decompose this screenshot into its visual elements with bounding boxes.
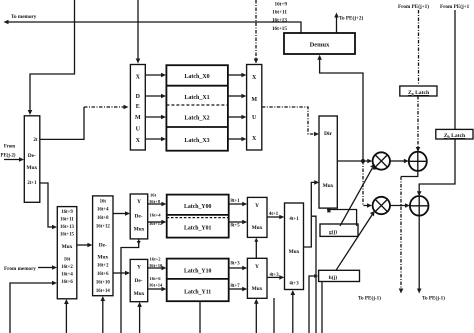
wire: adder A2 output to PE(j-1) (418, 216, 420, 290)
demux D: De-Mux column box (93, 196, 113, 296)
svg-text:Latch_X1: Latch_X1 (184, 95, 209, 101)
wire: control into h(j) from bottom-left (309, 276, 315, 333)
wire: Zb latch to adder A2 (419, 139, 455, 193)
wire: Mux column to De-Mux column (77, 244, 89, 246)
svg-text:16t+13: 16t+13 (60, 225, 75, 230)
wire: control stub into Y Mux 1 bottom (255, 242, 257, 259)
wire: Mux column bottom control (65, 303, 67, 333)
svg-text:X: X (252, 75, 257, 81)
node: junction dot at Dir mux bottom (327, 208, 331, 212)
wire: Y Mux 1 output 4t+1 (267, 216, 281, 218)
svg-text:16t+6: 16t+6 (61, 280, 73, 285)
svg-text:16t+2: 16t+2 (61, 265, 73, 270)
svg-text:2t+1: 2t+1 (27, 181, 37, 186)
svg-text:16t+15: 16t+15 (272, 26, 287, 32)
mux Dir: Dir/Mux tall box (319, 116, 337, 208)
svg-text:16t+10: 16t+10 (149, 263, 163, 268)
mux 4t: middle Mux box 4t+1/4t+3 (285, 203, 304, 290)
wires: Y De-Mux 1 to latches (148, 203, 163, 205)
svg-text:16t: 16t (64, 258, 71, 263)
svg-text:Mux: Mux (252, 225, 263, 231)
latch bank Y0: Latch_Y00/Y01 (167, 195, 229, 238)
wire: control jog joining riser (311, 216, 316, 333)
wire: De-Mux column to Y De-Mux 1 (113, 213, 127, 215)
wire: Demux to PE(j+2) (336, 16, 338, 33)
svg-text:Mux: Mux (62, 244, 73, 250)
wire: from PE(j-2) into De-Mux (4, 159, 21, 161)
wire: Za latch to adder A1 (dash-dot) (417, 96, 419, 148)
svg-text:De-: De- (99, 243, 107, 249)
svg-text:16t+6: 16t+6 (150, 276, 162, 281)
svg-text:16t: 16t (150, 193, 157, 198)
wire: control into middle Mux bottom (292, 293, 294, 333)
wire: vertical feed to X DEMUX (137, 0, 139, 60)
wire: control stub near Y Mux 2 (273, 298, 275, 333)
svg-text:E: E (136, 104, 140, 110)
svg-text:4t+3: 4t+3 (270, 273, 280, 278)
wire: middle Mux output up to Dir mux (304, 182, 316, 247)
multiplier M2 (373, 197, 390, 214)
demux Y2: Y De-Mux box (lower) (130, 259, 148, 301)
svg-text:16t+4: 16t+4 (150, 213, 162, 218)
rom h: h(j) box (319, 270, 360, 281)
wire: feedback up into Demux bottom (320, 58, 363, 161)
svg-text:4t+1: 4t+1 (269, 212, 279, 217)
svg-text:Mux: Mux (26, 165, 37, 171)
svg-text:8t+5: 8t+5 (231, 224, 241, 229)
wire: M1 to adder A1 (390, 160, 405, 162)
svg-text:16t+9: 16t+9 (275, 2, 288, 8)
svg-text:Latch_Y10: Latch_Y10 (184, 269, 211, 275)
svg-text:Za Latch: Za Latch (408, 90, 430, 96)
demux X: X DEMUX column box (130, 65, 145, 151)
mux Y1: Y Mux box (upper) (247, 197, 267, 237)
svg-text:To memory: To memory (11, 14, 37, 20)
wire: Y De-Mux 1 bottom elbow to bottom edge (121, 239, 139, 333)
svg-text:Mux: Mux (134, 227, 145, 233)
wire: 2t+1 output down to Mux column (40, 183, 54, 227)
svg-text:X: X (136, 138, 141, 144)
wire: diagonal h(j) to multiplier M2 (336, 214, 373, 271)
wire: 2t output to X DEMUX (40, 107, 84, 139)
svg-text:Latch_Y00: Latch_Y00 (184, 204, 211, 210)
wire: De-Mux column bottom control (102, 300, 104, 333)
svg-text:Latch_X3: Latch_X3 (184, 138, 209, 144)
svg-text:X: X (252, 136, 257, 142)
wires: latches Y0 to Y Mux 1 (229, 203, 244, 205)
svg-text:16t+10: 16t+10 (96, 281, 111, 286)
wire: X MUX to Dir mux (dash-dot) (262, 107, 316, 134)
svg-text:16t+12: 16t+12 (96, 225, 111, 230)
svg-text:16t+6: 16t+6 (97, 272, 109, 277)
svg-text:To PE(j+2): To PE(j+2) (339, 15, 364, 22)
svg-text:16t+13: 16t+13 (272, 18, 287, 24)
wire: control stub under h(j) (321, 282, 323, 333)
svg-text:Mux: Mux (97, 255, 108, 261)
svg-text:Y: Y (255, 203, 259, 209)
wire: Y Mux 2 output 4t+3 (267, 276, 281, 278)
latch bank Y1: Latch_Y10/Y11 (167, 259, 229, 302)
wire: control stub under latch bank Y1 (199, 302, 201, 333)
latch bank X: Latch_X0..X3 (166, 65, 228, 151)
svg-text:2t: 2t (33, 138, 38, 143)
svg-text:16t+8: 16t+8 (149, 199, 161, 204)
svg-text:Demux: Demux (310, 42, 331, 49)
svg-text:16t+14: 16t+14 (149, 283, 163, 288)
latch Zb: Zb Latch box (436, 129, 473, 139)
svg-text:4t+3: 4t+3 (289, 282, 299, 287)
svg-text:Mux: Mux (134, 291, 145, 297)
svg-text:From PE(j+1: From PE(j+1 (440, 3, 470, 10)
svg-text:Y: Y (137, 199, 141, 205)
svg-text:Latch_Y01: Latch_Y01 (184, 226, 211, 232)
wire: adder A1 output to PE(j-1) (dash-dot) (401, 171, 418, 177)
mux M: memory Mux column box (57, 207, 77, 299)
svg-text:From PE(j+1): From PE(j+1) (398, 3, 429, 10)
wire: M2 to adder A2 (390, 205, 407, 207)
svg-text:16t+11: 16t+11 (272, 10, 287, 16)
svg-text:16t+4: 16t+4 (61, 273, 73, 278)
wire: control into Y De-Mux 2 bottom (139, 305, 141, 333)
svg-text:Dir: Dir (324, 131, 333, 137)
rom g: g(j) box (320, 224, 358, 236)
svg-text:16t+15: 16t+15 (60, 233, 75, 238)
svg-text:8t+3: 8t+3 (231, 262, 241, 267)
svg-text:Y: Y (137, 265, 141, 271)
svg-text:From: From (4, 145, 15, 150)
svg-text:16t: 16t (100, 200, 107, 205)
wire: control into Mux column lower-left (10, 283, 54, 333)
svg-text:Zb Latch: Zb Latch (444, 133, 466, 139)
svg-text:Y: Y (255, 264, 259, 270)
svg-text:U: U (252, 115, 257, 121)
svg-text:16t+9: 16t+9 (61, 210, 73, 215)
wire: diagonal g(j) to multiplier M1 (340, 168, 372, 226)
demux U-top: output Demux box (284, 33, 355, 54)
svg-text:Latch_Y11: Latch_Y11 (184, 290, 211, 296)
svg-text:M: M (251, 97, 257, 103)
svg-text:8t+7: 8t+7 (231, 284, 241, 289)
svg-text:8t+1: 8t+1 (231, 199, 241, 204)
svg-text:M: M (135, 115, 141, 121)
svg-text:Latch_X0: Latch_X0 (184, 74, 209, 80)
wire: dash-dot feed to X MUX top (255, 0, 257, 59)
svg-text:h(j): h(j) (329, 274, 338, 281)
svg-text:From memory: From memory (4, 266, 36, 272)
svg-text:16t+12: 16t+12 (149, 221, 163, 226)
svg-text:16t+11: 16t+11 (60, 218, 74, 223)
wires: Y De-Mux 2 to latches (148, 267, 163, 269)
svg-text:To PE(j-1): To PE(j-1) (358, 295, 381, 302)
mux X: X MUX column box (247, 65, 262, 151)
svg-text:16t+4: 16t+4 (97, 208, 109, 213)
adder A2 (410, 196, 429, 216)
svg-text:g(j): g(j) (329, 229, 337, 236)
svg-text:De-: De- (134, 214, 142, 220)
wire: from PE(j+1) down to Zb latch (454, 10, 456, 129)
wires: latches Y1 to Y Mux 2 (229, 267, 244, 269)
svg-text:Mux: Mux (289, 249, 300, 255)
svg-text:De-: De- (28, 153, 36, 159)
demux Y1: Y De-Mux box (upper) (130, 194, 148, 239)
wire: g(j) up into Dir mux bottom (329, 210, 357, 226)
svg-text:16t+2: 16t+2 (97, 264, 109, 269)
svg-text:16t+8: 16t+8 (97, 216, 109, 221)
svg-text:Mux: Mux (252, 286, 263, 292)
wire: control into Y Mux 2 bottom (255, 302, 257, 333)
svg-text:PE(j-2): PE(j-2) (1, 154, 16, 159)
latch Za: Za Latch box (400, 86, 437, 96)
svg-text:D: D (136, 94, 141, 100)
svg-text:U: U (136, 127, 141, 133)
svg-text:16t+2: 16t+2 (150, 257, 162, 262)
svg-text:16t+14: 16t+14 (96, 289, 111, 294)
wires: X DEMUX to latches (145, 74, 162, 76)
mux Y2: Y Mux box (lower) (247, 258, 267, 298)
wires: latches to X MUX (228, 74, 243, 76)
wire: De-Mux column to Y De-Mux 2 (113, 272, 127, 274)
node: junction dot (361, 159, 365, 163)
wire: from memory into Mux column (38, 267, 54, 269)
wire: vertical feed to left De-Mux (30, 0, 75, 112)
svg-text:4t+1: 4t+1 (289, 217, 299, 222)
svg-text:De-: De- (134, 278, 142, 284)
svg-text:To PE(j-1): To PE(j-1) (422, 295, 445, 302)
demux left: 2t/2t+1 De-Mux tall box (24, 116, 40, 203)
svg-text:Mux: Mux (323, 183, 334, 189)
svg-text:Latch_X2: Latch_X2 (184, 116, 209, 122)
wire: to-memory horizontal bus (8, 22, 301, 33)
wire: junction down to multiplier M2 (dash-dot) (363, 161, 368, 206)
svg-text:X: X (136, 75, 141, 81)
wire: Dir mux output to multiplier row (337, 160, 369, 162)
multiplier M1 (373, 152, 390, 169)
adder A1 (409, 152, 427, 171)
wire: dash-dot from PE(j+1) down to Za latch (418, 10, 420, 85)
